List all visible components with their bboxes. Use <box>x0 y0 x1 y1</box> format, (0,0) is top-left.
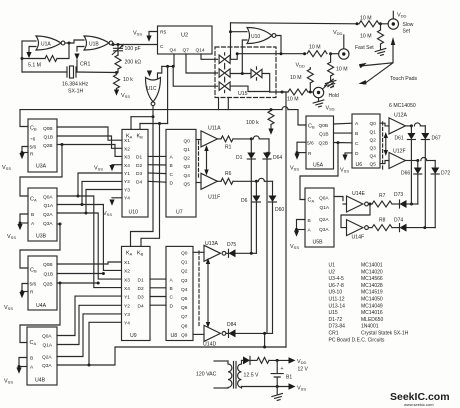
resistor R1 <box>221 136 233 142</box>
arrow VSS at U3B <box>17 224 22 230</box>
svg-text:U6: U6 <box>356 162 363 168</box>
svg-text:R7: R7 <box>379 193 386 199</box>
node Q4 a <box>166 65 169 68</box>
svg-text:U1: U1 <box>329 263 336 269</box>
wire AC lead bottom <box>214 387 228 389</box>
wire U5A Q1B to U6 B <box>334 132 353 134</box>
svg-text:Q0A: Q0A <box>43 195 53 201</box>
wire U9 D3 to U8 C <box>150 296 166 298</box>
node row2 left matrix <box>255 180 258 183</box>
wire U10 D3 to U7 C <box>148 172 166 175</box>
svg-text:B: B <box>170 163 173 169</box>
diode D64 (LED) <box>263 153 271 160</box>
svg-text:D3: D3 <box>138 295 144 301</box>
wire column D64 <box>266 159 268 333</box>
wire to U1C right input <box>158 66 162 78</box>
svg-text:X1: X1 <box>124 260 130 266</box>
diode D74 <box>400 224 407 232</box>
double-arrow repeated buffers U12 <box>384 132 388 156</box>
wire D67 stub <box>424 126 426 133</box>
svg-text:MC14028: MC14028 <box>361 283 383 289</box>
svg-text:D72: D72 <box>441 171 450 177</box>
wire U3A Q0B to U10 X1 <box>57 127 122 140</box>
IC U10 MC14519 <box>122 129 148 217</box>
wire U1A input rail <box>21 41 23 72</box>
svg-text:100 pF: 100 pF <box>125 46 141 52</box>
svg-text:R6: R6 <box>225 171 232 177</box>
wire U2 Q14 down to TG1 <box>201 54 218 59</box>
wire U4B A tie <box>19 366 27 368</box>
node row2 right matrix <box>416 159 419 162</box>
svg-text:U1B: U1B <box>89 42 99 48</box>
wire U3B Q2A to U10 Y3 <box>57 190 122 214</box>
wire U4A Q2B branch to U4B CA <box>20 283 60 343</box>
IC U5B MC14566 <box>305 188 334 247</box>
node U3B Q1A split <box>81 203 84 206</box>
gate U1B (NOR) <box>84 36 113 50</box>
IC U4A MC14566 <box>28 256 57 310</box>
svg-text:D1: D1 <box>136 155 142 161</box>
inverter U13A <box>204 245 226 261</box>
svg-text:Y1: Y1 <box>124 295 130 301</box>
node U1B output <box>112 43 115 46</box>
svg-text:Q0B: Q0B <box>43 262 53 268</box>
svg-text:Q5: Q5 <box>184 181 191 187</box>
svg-text:VSS: VSS <box>121 93 130 99</box>
svg-text:10 k: 10 k <box>123 77 133 83</box>
wire U4B Q1A to U9 Y2 <box>57 305 122 344</box>
wire U10 D4 to U7 D <box>148 180 166 183</box>
wire TG1 out <box>230 54 237 60</box>
svg-text:CB: CB <box>308 124 315 130</box>
wire column D66 <box>417 174 419 204</box>
svg-text:Q4: Q4 <box>184 173 191 179</box>
svg-text:U1C: U1C <box>147 86 157 92</box>
node crystal/divider chain <box>115 71 118 74</box>
wire main divided-clock line <box>20 109 282 111</box>
svg-text:U3-4-5: U3-4-5 <box>329 276 345 282</box>
svg-text:Y4: Y4 <box>124 196 130 202</box>
svg-text:VSS: VSS <box>340 168 349 174</box>
svg-text:VSS: VSS <box>326 106 335 112</box>
wire rail riser to D84 node <box>264 333 266 347</box>
node U5B A tie <box>295 228 298 231</box>
svg-text:MC14519: MC14519 <box>361 290 383 296</box>
wire U9 D1 to U8 A <box>150 278 166 280</box>
resistor 10M hold <box>288 89 308 95</box>
battery B1 <box>271 360 283 386</box>
wire feedback right segment <box>57 43 69 59</box>
wire KA riser U10 <box>130 117 132 130</box>
diode D84 <box>229 329 236 337</box>
svg-text:KA: KA <box>126 251 133 257</box>
svg-text:U14E: U14E <box>352 191 366 197</box>
svg-text:www.seekic.com: www.seekic.com <box>404 402 434 407</box>
node rail / 5.1M <box>21 57 24 60</box>
wire Q4 junction bar <box>162 65 174 67</box>
svg-text:Crystal Statek SX-1H: Crystal Statek SX-1H <box>361 331 409 337</box>
wire U5B B/A tie <box>297 220 306 230</box>
wire U3B Q1A to U10 Y2 <box>57 181 122 204</box>
wire column D61 <box>410 140 412 205</box>
buffer U11A <box>201 131 217 147</box>
arrow VSS at U2 reset <box>146 36 151 42</box>
wire U14F out <box>368 227 372 229</box>
wire slow pad VDD stub <box>392 11 394 18</box>
svg-text:VSS: VSS <box>4 379 13 385</box>
svg-text:MC14049: MC14049 <box>361 303 383 309</box>
node D74 <box>423 226 426 229</box>
wire U9 D2 to U8 B <box>150 287 166 289</box>
wire 100k bottom <box>270 125 272 129</box>
node VDD rail <box>276 359 279 362</box>
svg-text:6 MC14050: 6 MC14050 <box>389 103 416 109</box>
wire crystal riser <box>76 60 78 72</box>
wire U3B Q3A to U4A CB <box>20 224 60 268</box>
arrow VSS at U4A <box>19 292 24 298</box>
wire U5B Q0A to U14E <box>334 197 343 201</box>
svg-text:U5B: U5B <box>313 240 324 246</box>
svg-text:D75: D75 <box>227 242 236 248</box>
wire U10 D2 to U7 B <box>148 164 166 166</box>
svg-text:X1: X1 <box>124 138 130 144</box>
wire K-line A <box>131 116 153 118</box>
gate U1C (NOR, pointing down) <box>146 78 161 106</box>
svg-text:U11F: U11F <box>208 195 220 201</box>
resistor 5.1M <box>45 56 57 62</box>
wire U9 D4 to U8 D <box>150 304 166 306</box>
wire fast-set line <box>237 53 304 55</box>
svg-text:B: B <box>30 356 33 362</box>
wire D60 stub <box>272 181 274 195</box>
IC U3B MC14566 <box>28 188 57 241</box>
diode D67 (LED) <box>421 133 429 140</box>
svg-text:Y2: Y2 <box>124 179 130 185</box>
svg-text:Q0A: Q0A <box>319 196 329 202</box>
svg-text:U12A: U12A <box>394 113 408 119</box>
wire R7 to D73 <box>392 203 400 205</box>
wire feedback left segment <box>22 58 45 60</box>
node fast res right <box>329 52 332 55</box>
wire hop row1 <box>253 136 259 139</box>
wire hop U12F out <box>421 158 427 161</box>
wire U13A out to D75 <box>226 252 229 254</box>
wire Q4 to TG3 <box>173 66 217 86</box>
IC U8 MC14028 decoder <box>166 246 193 340</box>
inverter U14D <box>204 325 226 341</box>
wire D61 stub <box>410 126 412 133</box>
wire column D1 <box>250 159 252 253</box>
svg-text:10 M: 10 M <box>290 75 302 81</box>
transmission gate U15a <box>219 53 230 66</box>
wire U2 Q7 down to TG2 <box>186 54 218 73</box>
svg-text:D1-72: D1-72 <box>329 317 343 323</box>
svg-text:D2: D2 <box>136 163 142 169</box>
touch pad Fast Set <box>339 49 349 59</box>
svg-text:Y3: Y3 <box>124 187 130 193</box>
node D75 column <box>250 252 253 255</box>
svg-text:VSS: VSS <box>297 386 306 392</box>
arrow VSS at U10 Y4 <box>109 200 114 206</box>
wire D72 stub <box>434 161 436 168</box>
wire U4A Q2B joins drop <box>57 282 98 284</box>
svg-text:D73: D73 <box>394 192 403 198</box>
wire U2 Q4 down <box>173 54 175 66</box>
svg-text:Slow: Slow <box>403 22 414 28</box>
wire U3B Q0A down to U9 X4 <box>78 196 122 288</box>
svg-text:Q1A: Q1A <box>44 203 54 209</box>
svg-text:Q0: Q0 <box>184 138 191 144</box>
buffer U11F <box>201 173 217 189</box>
wire TG4 out to hold line <box>262 74 270 93</box>
svg-text:U14D: U14D <box>203 342 217 348</box>
svg-text:B1: B1 <box>286 375 292 381</box>
svg-text:CB: CB <box>30 268 37 274</box>
svg-text:Q2: Q2 <box>181 269 188 275</box>
diode D60 (LED) <box>269 196 277 203</box>
svg-text:VSS: VSS <box>4 305 13 311</box>
wire hold VDD stub <box>309 68 311 70</box>
svg-text:KB: KB <box>137 134 144 140</box>
wire D73 line <box>407 203 419 205</box>
svg-text:D6: D6 <box>241 198 248 204</box>
svg-text:D66: D66 <box>401 171 410 177</box>
node U4A tie <box>21 290 24 293</box>
touch pad Slow Set <box>388 19 398 29</box>
inverter U14E <box>347 196 369 212</box>
svg-text:U13-14: U13-14 <box>329 303 346 309</box>
node U10 input on riser <box>229 30 232 33</box>
svg-text:Q6: Q6 <box>181 305 188 311</box>
svg-text:VSS: VSS <box>103 211 112 217</box>
resistor 10 k <box>114 73 120 90</box>
diode D72 (LED) <box>431 168 439 175</box>
svg-text:Q0: Q0 <box>181 251 188 257</box>
svg-text:VSS: VSS <box>290 166 299 172</box>
dashed bus U8 outputs <box>198 251 200 327</box>
buffer U12F <box>389 153 405 169</box>
svg-text:R1: R1 <box>225 145 232 151</box>
arrow VDD output <box>289 357 296 363</box>
wire U6 D tie <box>345 153 352 154</box>
svg-text:U15: U15 <box>329 310 338 316</box>
transmission gate U15b <box>219 67 230 80</box>
wire D84 line <box>236 332 273 334</box>
svg-text:Q1A: Q1A <box>43 343 53 349</box>
svg-text:U3B: U3B <box>36 234 47 240</box>
wire row2 to corner <box>264 180 272 182</box>
wire row1 to corner <box>259 138 269 140</box>
svg-text:10 M: 10 M <box>360 16 372 22</box>
node U3B Q3A branch <box>59 223 62 226</box>
svg-text:Y4: Y4 <box>124 321 130 327</box>
svg-text:10 M: 10 M <box>360 34 372 40</box>
resistor R6 <box>221 178 233 184</box>
wire row2 to corner <box>427 160 435 162</box>
diode D1 (LED) <box>247 153 255 160</box>
ground at hold pad <box>325 79 337 90</box>
resistor 10M hold pullup <box>307 69 313 83</box>
wire U3B A tie <box>20 222 28 224</box>
wire hold pad bottom stub <box>318 98 320 102</box>
svg-text:Q4: Q4 <box>370 154 377 160</box>
node fast line gate out <box>280 52 283 55</box>
wire U5A 5/6 tie <box>297 142 306 152</box>
svg-text:12 V: 12 V <box>298 367 309 373</box>
svg-text:16.384 kHz: 16.384 kHz <box>62 82 89 88</box>
wire U1A top input <box>22 40 36 42</box>
svg-text:Q2B: Q2B <box>319 141 329 147</box>
svg-text:Q1: Q1 <box>370 129 377 135</box>
wire U12A out <box>405 125 411 127</box>
svg-text:Q7: Q7 <box>183 48 190 54</box>
svg-text:D: D <box>170 180 174 186</box>
svg-text:Q3A: Q3A <box>43 221 53 227</box>
arrow VSS below 100k <box>268 129 273 135</box>
wire hold pullup to line <box>309 83 311 92</box>
node U5A Q2B branch <box>337 141 340 144</box>
node hold line a <box>281 91 284 94</box>
parts list <box>329 263 409 344</box>
wire hold riser from node <box>282 91 286 93</box>
wire U5A R tie <box>297 152 306 154</box>
wire K-line B <box>140 123 168 125</box>
node 100k on clock line <box>270 108 273 111</box>
wire U3B Q0A to U10 Y1 <box>57 173 122 196</box>
svg-text:D: D <box>355 151 359 157</box>
wire TG2 out to TG4 in <box>230 73 251 75</box>
svg-text:VDD: VDD <box>296 63 306 69</box>
wire U3B Q2A down to U9 X3 <box>86 213 122 279</box>
wire K riser to U9 KB <box>141 124 160 247</box>
node U1A output <box>68 42 71 45</box>
svg-text:U2: U2 <box>329 269 336 275</box>
svg-text:Touch Pads: Touch Pads <box>390 76 418 82</box>
svg-text:Q4: Q4 <box>170 48 177 54</box>
svg-text:U13A: U13A <box>205 241 219 247</box>
wire U10 Y4 stub <box>112 197 122 199</box>
svg-text:D64: D64 <box>273 155 282 161</box>
svg-text:VSS: VSS <box>290 244 299 250</box>
svg-text:VSS: VSS <box>2 165 11 171</box>
svg-text:Q3A: Q3A <box>319 227 329 233</box>
svg-text:200 kΩ: 200 kΩ <box>125 60 142 66</box>
svg-text:MC14050: MC14050 <box>361 297 383 303</box>
IC U3A MC14566 <box>28 119 57 172</box>
wire U5A Q2B to U5B CA <box>300 143 338 200</box>
svg-text:D84: D84 <box>227 322 236 328</box>
IC U5A MC14566 <box>306 116 334 169</box>
svg-text:U3A: U3A <box>36 164 47 170</box>
wire clock line right end to U5A CB <box>288 110 306 125</box>
node U3B Q0A split <box>77 195 80 198</box>
wire U3A Q1B to U10 X2 <box>57 136 122 148</box>
svg-text:D4: D4 <box>136 180 142 186</box>
wire bottom rail <box>242 386 289 388</box>
wire U10 X4 stub <box>112 164 122 166</box>
arrow VSS at U5A <box>294 154 299 160</box>
gate U10 (NOR) <box>247 28 276 44</box>
svg-text:Q1B: Q1B <box>319 132 329 138</box>
svg-text:Q0A: Q0A <box>42 334 52 340</box>
svg-text:VSS: VSS <box>7 234 16 240</box>
wire top line to slow-set <box>231 23 358 24</box>
svg-text:MC14016: MC14016 <box>361 310 383 316</box>
svg-text:Q2B: Q2B <box>43 282 53 288</box>
wire D1 stub <box>250 139 252 153</box>
svg-text:X2: X2 <box>124 269 130 275</box>
svg-text:VDD: VDD <box>397 13 407 19</box>
wire to slow pad <box>381 23 389 25</box>
wire U12F out <box>405 160 417 162</box>
wire fast pulldown to gnd <box>330 76 332 81</box>
wire U2 R5 to VSS arrow <box>149 32 158 36</box>
node U4A Q1B join <box>102 272 105 275</box>
wire U14E in <box>343 203 347 205</box>
wire U1A output to node <box>65 42 69 44</box>
wire U3B Q3A out <box>57 223 60 225</box>
svg-text:B: B <box>31 212 34 218</box>
svg-text:Q3A: Q3A <box>42 363 52 369</box>
svg-text:VDD: VDD <box>333 30 343 36</box>
svg-text:Q2A: Q2A <box>319 217 329 223</box>
svg-text:Q2A: Q2A <box>42 355 52 361</box>
svg-text:Q1B: Q1B <box>44 135 54 141</box>
node U3A Q2B branch <box>61 143 64 146</box>
svg-text:Q0B: Q0B <box>43 126 53 132</box>
svg-text:VSS: VSS <box>133 31 142 37</box>
svg-text:Q5: Q5 <box>181 296 188 302</box>
node rail riser <box>263 346 266 349</box>
wire D75 to column <box>236 252 257 254</box>
svg-text:CB: CB <box>30 126 37 132</box>
node fast line left <box>236 52 239 55</box>
wire K riser to U9 KA <box>131 117 154 247</box>
svg-text:Fast Set: Fast Set <box>355 45 374 51</box>
wire U14E feedback to U14F <box>341 204 370 228</box>
touch pad Hold <box>313 87 323 97</box>
svg-text:Q2: Q2 <box>370 137 377 143</box>
wire diode to resistor <box>250 359 256 361</box>
wire column D67 <box>424 140 426 228</box>
svg-text:SX-1H: SX-1H <box>68 89 84 95</box>
svg-text:VSS: VSS <box>94 166 103 172</box>
wire to fast pad <box>331 53 339 55</box>
node Q4 b <box>172 65 175 68</box>
svg-text:10 M: 10 M <box>336 67 348 73</box>
svg-text:D73-84: D73-84 <box>329 324 346 330</box>
wire U4A Q1B joins drop <box>57 273 103 275</box>
svg-text:10 M: 10 M <box>287 97 299 103</box>
wire U5A Q2B to U6 C <box>334 142 353 144</box>
svg-text:R5: R5 <box>160 30 166 36</box>
svg-text:+: + <box>281 366 284 372</box>
svg-text:U11-12: U11-12 <box>329 297 345 303</box>
wire U3A R tie2 <box>22 152 28 154</box>
node row1 right matrix <box>410 124 413 127</box>
resistor 10M fast pulldown <box>328 62 334 76</box>
svg-text:MC14001: MC14001 <box>361 263 383 269</box>
svg-text:C: C <box>170 295 174 301</box>
node D84 column <box>263 332 266 335</box>
wire D6 stub <box>255 181 257 195</box>
diode D6 (LED) <box>252 196 260 203</box>
wire KB riser U10 <box>139 124 141 130</box>
wire U5B A tie <box>297 229 306 231</box>
svg-text:U8: U8 <box>171 333 178 339</box>
double-arrow repeated buffers U11 <box>204 145 208 176</box>
svg-text:B: B <box>355 131 358 137</box>
